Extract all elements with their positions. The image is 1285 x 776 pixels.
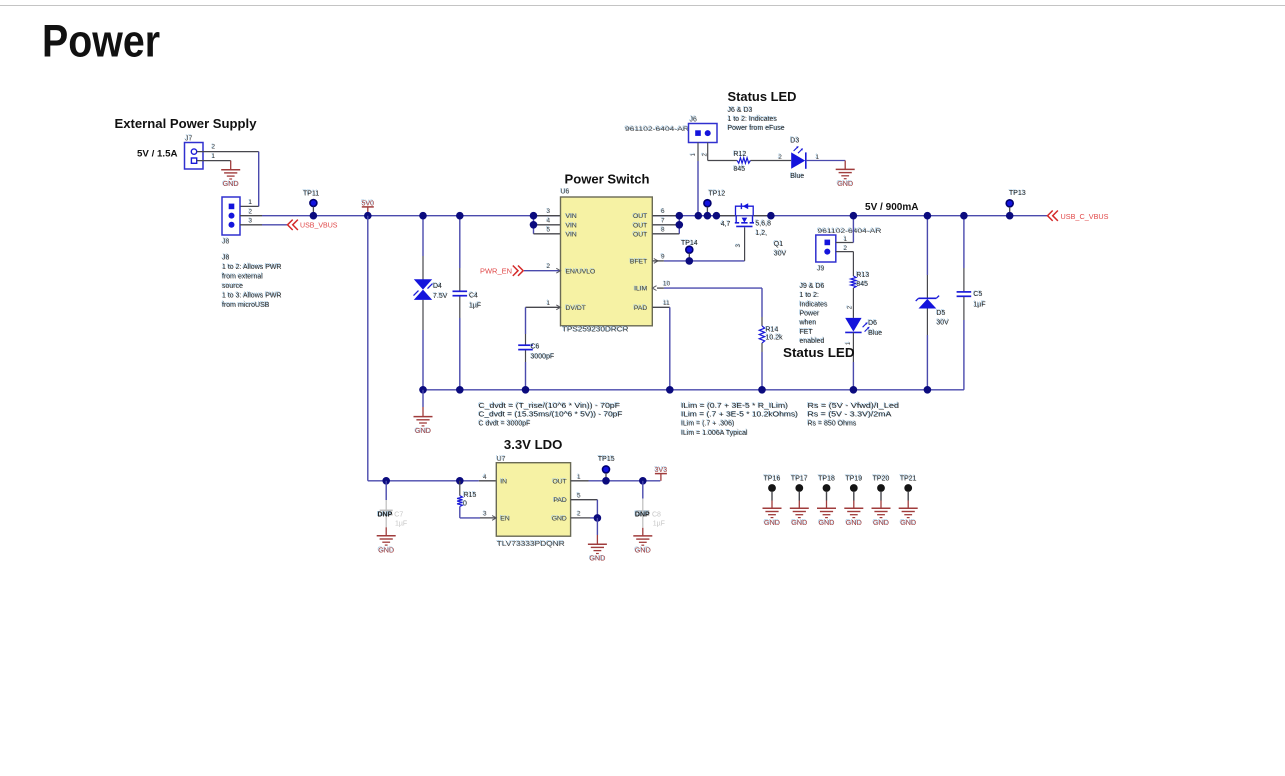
testpoint TP15: [597, 455, 615, 478]
svg-text:2: 2: [547, 263, 551, 270]
svg-text:5: 5: [577, 492, 581, 499]
svg-text:enabled: enabled: [800, 338, 825, 345]
svg-text:1 to 2: Allows PWR: 1 to 2: Allows PWR: [222, 264, 282, 271]
svg-text:3: 3: [249, 218, 253, 225]
ground (U7): [588, 544, 607, 563]
svg-text:30V: 30V: [936, 319, 949, 326]
wire TP17 to GND: [798, 501, 800, 509]
connector J6: [689, 116, 718, 143]
svg-text:USB_VBUS: USB_VBUS: [300, 223, 338, 230]
svg-text:TP19: TP19: [845, 475, 862, 482]
svg-text:961102-6404-AR: 961102-6404-AR: [625, 126, 689, 133]
svg-text:U7: U7: [497, 456, 506, 463]
wire rail to GND symbol: [422, 390, 424, 407]
svg-text:OUT: OUT: [633, 222, 647, 229]
svg-text:J9 & D6: J9 & D6: [800, 283, 825, 290]
wire J6 pin1 down to 5V0 net: [697, 143, 699, 162]
svg-text:9: 9: [661, 253, 665, 260]
wire R15 to EN pin3: [459, 507, 461, 518]
wire TP21 to GND: [907, 501, 909, 509]
svg-text:10.2k: 10.2k: [766, 334, 784, 341]
svg-text:Status LED: Status LED: [728, 89, 797, 104]
svg-text:BFET: BFET: [630, 259, 647, 266]
svg-text:D3: D3: [790, 137, 799, 144]
svg-text:J7: J7: [185, 135, 193, 142]
junction D5 top: [924, 212, 932, 220]
testpoint TP20: [872, 475, 890, 501]
wire PAD pin5 to GND pin2: [571, 499, 598, 501]
wire R12 to D3: [750, 160, 791, 162]
svg-text:DV/DT: DV/DT: [566, 305, 586, 312]
svg-text:GND: GND: [415, 426, 431, 435]
wire OUT bus: [678, 216, 680, 234]
resistor R13: [851, 271, 870, 288]
junction R15 branch: [456, 477, 464, 485]
junction C8 branch: [639, 477, 647, 485]
testpoint TP18: [817, 475, 835, 501]
wire OUT pin1 net: [571, 480, 589, 482]
junction TP14 on BFET: [686, 257, 694, 265]
page top rule: [0, 5, 1285, 7]
svg-text:845: 845: [856, 281, 868, 288]
svg-text:Rs = 850 Ohms: Rs = 850 Ohms: [808, 420, 857, 427]
svg-text:Power from eFuse: Power from eFuse: [728, 125, 785, 132]
wire J7 pin1 to GND: [197, 160, 231, 162]
svg-text:0: 0: [463, 501, 467, 508]
ground (rail): [414, 417, 433, 436]
svg-text:11: 11: [663, 300, 670, 307]
junction rail D4: [419, 386, 427, 394]
junction TP12 on 5V net: [704, 212, 712, 220]
ground (TP21): [899, 508, 918, 527]
wire 5V0 to LDO IN: [367, 216, 369, 481]
svg-text:D5: D5: [936, 310, 945, 317]
svg-text:External Power Supply: External Power Supply: [115, 116, 258, 131]
testpoint TP17: [790, 475, 808, 501]
svg-text:5: 5: [547, 226, 551, 233]
svg-text:5V0: 5V0: [362, 200, 375, 207]
svg-text:2: 2: [249, 208, 253, 215]
junction VIN pin3: [530, 212, 538, 220]
svg-text:VIN: VIN: [566, 222, 577, 229]
wire J8 pin3 to USB_VBUS: [240, 224, 262, 226]
svg-text:845: 845: [734, 166, 746, 173]
svg-text:Rs = (5V - 3.3V)/2mA: Rs = (5V - 3.3V)/2mA: [808, 412, 892, 419]
svg-text:C4: C4: [469, 292, 478, 299]
svg-text:C7: C7: [394, 512, 403, 519]
svg-text:Blue: Blue: [790, 173, 804, 180]
power flag 3V3: [654, 466, 667, 474]
svg-text:1: 1: [212, 153, 216, 160]
svg-text:2: 2: [778, 154, 782, 161]
junction rail R14: [758, 386, 766, 394]
svg-text:TLV73333PDQNR: TLV73333PDQNR: [497, 539, 565, 548]
junction D4 top: [419, 212, 427, 220]
junction U7 GND node: [594, 514, 602, 522]
svg-text:1: 1: [577, 474, 581, 481]
wire D4 branch vertical: [422, 216, 424, 256]
wire segment Q1 source (dark): [716, 215, 735, 217]
svg-text:source: source: [222, 283, 243, 290]
svg-text:C dvdt = 3000pF: C dvdt = 3000pF: [479, 420, 531, 427]
tvs diode D4: [414, 279, 448, 300]
svg-text:PAD: PAD: [634, 305, 648, 312]
note J8 jumper usage: [221, 254, 281, 309]
svg-text:4: 4: [483, 474, 487, 481]
port USB_C_VBUS: [1048, 211, 1109, 221]
svg-text:Blue: Blue: [868, 330, 882, 337]
wire J8 pin2 stub: [240, 215, 262, 217]
wire D5 branch vertical: [926, 216, 928, 275]
capacitor C6: [518, 343, 554, 361]
wire R13 to D6: [852, 288, 854, 318]
capacitor C4: [453, 291, 482, 309]
svg-text:Indicates: Indicates: [800, 301, 829, 308]
svg-text:4: 4: [547, 217, 551, 224]
svg-text:Power Switch: Power Switch: [565, 172, 650, 187]
svg-text:ILim = 1.006A Typical: ILim = 1.006A Typical: [681, 430, 748, 437]
wire TP20 to GND: [880, 501, 882, 509]
svg-text:from microUSB: from microUSB: [222, 302, 270, 309]
junction OUT pin6: [676, 212, 684, 220]
svg-text:3.3V LDO: 3.3V LDO: [504, 437, 563, 452]
svg-text:Q1: Q1: [774, 241, 783, 248]
ground (TP20): [872, 508, 891, 527]
wire J9 pin1 up to 5V net: [836, 242, 854, 244]
svg-text:C5: C5: [973, 291, 982, 298]
junction rail D5: [924, 386, 932, 394]
svg-text:Power: Power: [800, 310, 821, 317]
resistor R15: [457, 481, 476, 508]
resistor R14: [759, 326, 783, 343]
testpoint TP12: [704, 190, 725, 213]
svg-text:1µF: 1µF: [653, 521, 665, 528]
svg-text:C_dvdt = (15.35ms/(10^6 * 5V)): C_dvdt = (15.35ms/(10^6 * 5V)) - 70pF: [479, 412, 623, 419]
svg-text:30V: 30V: [774, 250, 787, 257]
svg-text:Power: Power: [42, 15, 160, 66]
svg-text:J6 & D3: J6 & D3: [728, 107, 753, 114]
wire VIN bus: [533, 216, 535, 234]
junction 5V0 branch to LDO: [364, 212, 372, 220]
svg-text:ILIM: ILIM: [634, 286, 648, 293]
svg-text:2: 2: [212, 144, 216, 151]
svg-text:3V3: 3V3: [655, 467, 668, 474]
svg-text:GND: GND: [223, 179, 239, 188]
wire C4 branch vertical: [459, 216, 461, 268]
svg-text:1: 1: [547, 300, 551, 307]
wire segment Q1 drain (dark): [753, 215, 771, 217]
wire C5 branch vertical: [963, 216, 965, 268]
svg-text:C_dvdt = (T_rise/(10^6 * Vin)): C_dvdt = (T_rise/(10^6 * Vin)) - 70pF: [479, 403, 621, 410]
svg-text:OUT: OUT: [633, 231, 647, 238]
wire J6 pin2 to R12: [707, 143, 709, 161]
note Rs formulas: [807, 402, 899, 427]
wire TP18 to GND: [826, 501, 828, 509]
note J9 & D6 usage: [798, 282, 828, 345]
svg-text:Rs = (5V - Vfwd)/I_Led: Rs = (5V - Vfwd)/I_Led: [808, 403, 900, 410]
ground (J7 pin1): [221, 170, 240, 189]
connector J9: [816, 235, 836, 273]
svg-text:7.5V: 7.5V: [433, 293, 448, 300]
note ILim formulas: [680, 402, 798, 437]
led D6: [845, 318, 882, 337]
wire PAD pin11 to GND rail: [652, 306, 670, 308]
svg-text:J8: J8: [222, 238, 230, 245]
svg-text:J8: J8: [222, 255, 230, 262]
svg-text:1µF: 1µF: [973, 301, 985, 308]
svg-text:GND: GND: [552, 515, 567, 522]
svg-text:Status LED: Status LED: [783, 345, 855, 360]
svg-text:1µF: 1µF: [395, 521, 407, 528]
svg-text:TP11: TP11: [303, 190, 319, 197]
ground (C8): [633, 536, 652, 555]
wire 5V0 main horizontal net: [262, 215, 1047, 217]
transistor Q1 PMOS: [735, 203, 754, 226]
svg-text:1: 1: [844, 236, 848, 243]
svg-text:GND: GND: [635, 545, 651, 554]
svg-text:1µF: 1µF: [469, 302, 481, 309]
svg-text:GND: GND: [589, 554, 605, 563]
junction J9 pin1 on 5V net: [850, 212, 858, 220]
svg-text:GND: GND: [791, 518, 807, 527]
svg-text:GND: GND: [764, 518, 780, 527]
junction VIN pin4: [530, 221, 538, 229]
wire U7 GND to symbol: [596, 518, 598, 535]
junction rail PAD: [666, 386, 674, 394]
ground (TP17): [790, 508, 809, 527]
svg-text:1 to 3: Allows PWR: 1 to 3: Allows PWR: [222, 293, 282, 300]
wire GND rail: [423, 389, 964, 391]
ground (TP16): [763, 508, 782, 527]
svg-text:when: when: [799, 320, 817, 327]
svg-text:GND: GND: [837, 179, 853, 188]
svg-text:VIN: VIN: [566, 231, 577, 238]
svg-text:4,7: 4,7: [721, 221, 731, 228]
svg-text:GND: GND: [900, 518, 916, 527]
junction Q1 source node: [713, 212, 721, 220]
svg-text:PAD: PAD: [553, 497, 567, 504]
wire J7 pin2 to J8 pin1: [197, 151, 259, 153]
svg-text:USB_C_VBUS: USB_C_VBUS: [1061, 214, 1109, 221]
wire R14 to GND rail: [761, 343, 763, 352]
svg-text:TP16: TP16: [764, 475, 781, 482]
wire BFET pin9 to Q1 gate: [654, 259, 658, 264]
wire C8 to GND: [642, 528, 644, 536]
svg-text:DNP: DNP: [635, 511, 650, 518]
svg-text:C8: C8: [652, 511, 661, 518]
svg-text:ILim = (.7 + 3E-5 * 10.2kOhms): ILim = (.7 + 3E-5 * 10.2kOhms): [681, 412, 798, 419]
wire C7 to GND: [385, 527, 387, 536]
svg-text:PWR_EN: PWR_EN: [480, 269, 512, 276]
power flag 5V0: [367, 207, 369, 213]
junction rail C4: [456, 386, 464, 394]
testpoint TP11: [302, 190, 319, 214]
testpoint TP14: [680, 239, 698, 258]
junction rail C6: [522, 386, 530, 394]
svg-text:5,6,8: 5,6,8: [755, 221, 771, 228]
power flag 5V0: [361, 200, 374, 208]
wire ILIM pin10 to R14: [652, 286, 656, 291]
svg-text:TP12: TP12: [709, 190, 726, 197]
svg-text:1 to 2: Indicates: 1 to 2: Indicates: [728, 116, 778, 123]
svg-text:3000pF: 3000pF: [531, 354, 555, 361]
note C_dvdt formulas: [478, 402, 623, 427]
junction TP13 on USB_C_VBUS net: [1006, 212, 1014, 220]
svg-text:TPS259230DRCR: TPS259230DRCR: [562, 325, 629, 334]
svg-text:3: 3: [547, 208, 551, 215]
junction Q1 drain to 5V net: [767, 212, 775, 220]
svg-text:5V / 900mA: 5V / 900mA: [865, 202, 919, 213]
port USB_VBUS: [288, 220, 338, 230]
wire D3 cathode to GND: [806, 160, 845, 162]
svg-text:TP17: TP17: [791, 475, 808, 482]
svg-text:6: 6: [661, 208, 665, 215]
svg-text:R12: R12: [734, 151, 747, 158]
capacitor C5: [957, 290, 986, 308]
svg-text:U6: U6: [561, 189, 570, 196]
wire TP19 to GND: [853, 501, 855, 509]
svg-text:7: 7: [661, 217, 665, 224]
svg-text:1: 1: [249, 199, 253, 206]
svg-text:from external: from external: [222, 274, 263, 281]
svg-text:IN: IN: [500, 478, 507, 485]
svg-text:J6: J6: [690, 116, 698, 123]
wire TP16 to GND: [771, 501, 773, 509]
note J6 & D3 usage: [727, 106, 785, 132]
junction TP11 on 5V0: [310, 212, 318, 220]
ground (TP19): [844, 508, 863, 527]
svg-text:FET: FET: [800, 329, 814, 336]
ground (C7): [377, 536, 396, 555]
testpoint TP21: [899, 475, 917, 501]
svg-text:10: 10: [663, 281, 671, 288]
capacitor C7 (DNP): [377, 481, 408, 528]
svg-text:8: 8: [661, 226, 665, 233]
testpoint TP16: [763, 475, 781, 501]
zener diode D5: [916, 296, 949, 327]
connector J7: [184, 135, 203, 170]
wire J9 pin2 to R13: [836, 251, 854, 253]
svg-text:EN: EN: [500, 515, 510, 522]
svg-text:D6: D6: [868, 320, 877, 327]
svg-text:EN/UVLO: EN/UVLO: [566, 268, 596, 275]
svg-text:2: 2: [577, 511, 581, 518]
svg-text:GND: GND: [873, 518, 889, 527]
svg-text:GND: GND: [378, 545, 394, 554]
wire GND pin2 stub: [571, 517, 590, 519]
svg-text:VIN: VIN: [566, 213, 577, 220]
led D3: [790, 137, 806, 181]
svg-text:961102-6404-AR: 961102-6404-AR: [818, 228, 882, 235]
power flag 3V3: [660, 474, 662, 481]
testpoint TP13: [1006, 189, 1026, 213]
junction J6 pin1 on 5V0: [695, 212, 703, 220]
svg-text:TP15: TP15: [598, 456, 615, 463]
svg-text:ILim = (0.7 + 3E-5 * R_ILim): ILim = (0.7 + 3E-5 * R_ILim): [681, 403, 788, 410]
svg-text:OUT: OUT: [633, 213, 647, 220]
svg-text:TP13: TP13: [1009, 190, 1026, 197]
svg-text:3: 3: [483, 511, 487, 518]
connector J8: [221, 197, 240, 245]
op-amp U6 eFuse TPS259230DRCR: [560, 188, 653, 334]
svg-text:ILim = (.7 + .306): ILim = (.7 + .306): [681, 420, 734, 427]
svg-text:C6: C6: [531, 344, 540, 351]
svg-text:J9: J9: [817, 266, 825, 273]
svg-text:5V / 1.5A: 5V / 1.5A: [137, 149, 178, 160]
svg-text:R15: R15: [464, 492, 477, 499]
svg-text:TP21: TP21: [900, 475, 917, 482]
svg-text:OUT: OUT: [552, 478, 566, 485]
ground (TP18): [817, 508, 836, 527]
svg-text:1 to 2:: 1 to 2:: [800, 292, 820, 299]
wire D6 to GND rail: [852, 332, 854, 362]
op-amp U7 LDO TLV73333PDQNR: [496, 455, 571, 548]
svg-text:R13: R13: [856, 272, 869, 279]
junction rail D6: [850, 386, 858, 394]
svg-text:TP18: TP18: [818, 475, 835, 482]
junction TP15 on 3V3: [602, 477, 610, 485]
testpoint TP19: [845, 475, 863, 501]
ground (D3): [836, 169, 855, 188]
svg-text:GND: GND: [846, 518, 862, 527]
capacitor C8 (DNP): [634, 481, 665, 528]
junction OUT pin7: [676, 221, 684, 229]
junction C4 top: [456, 212, 464, 220]
svg-text:D4: D4: [433, 283, 442, 290]
svg-text:DNP: DNP: [378, 512, 393, 519]
svg-text:1,2,: 1,2,: [755, 230, 767, 237]
svg-text:GND: GND: [819, 518, 835, 527]
wire PWR_EN to EN/UVLO pin2: [524, 270, 561, 272]
wire DVDT pin1 to C6: [526, 306, 561, 308]
svg-text:TP20: TP20: [873, 475, 890, 482]
resistor R12: [733, 150, 751, 173]
junction C5 top: [960, 212, 968, 220]
port PWR_EN: [480, 266, 523, 276]
junction C7 branch: [382, 477, 390, 485]
